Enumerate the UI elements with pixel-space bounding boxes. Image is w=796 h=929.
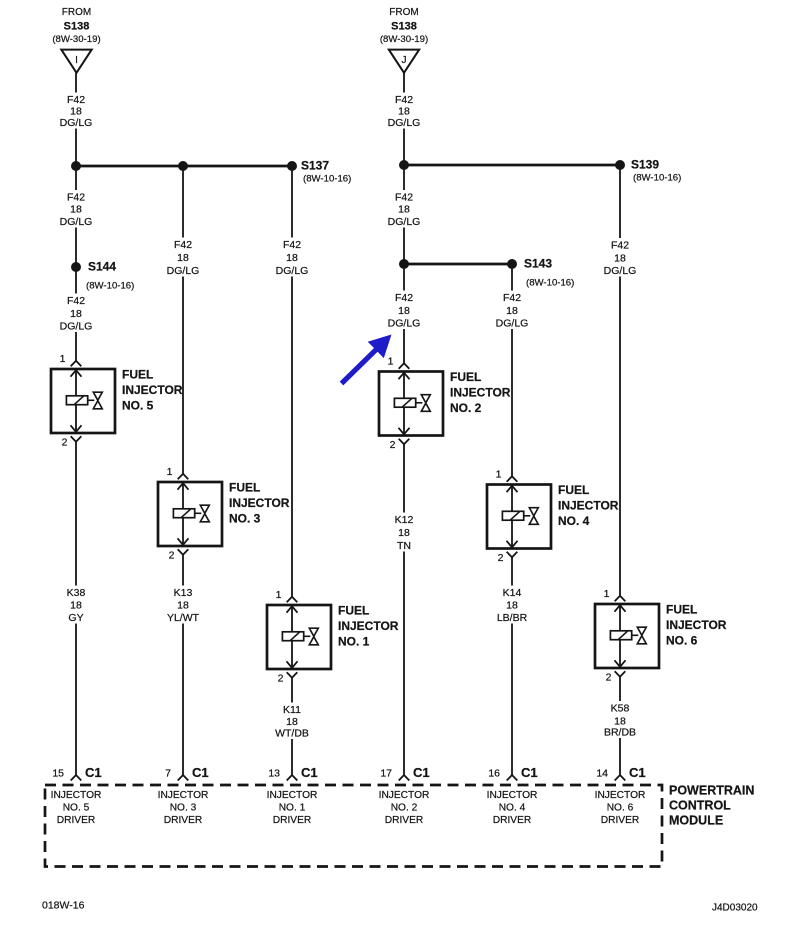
svg-text:1: 1 [276,589,282,601]
svg-text:WT/DB: WT/DB [275,727,309,739]
svg-text:18: 18 [70,599,82,611]
svg-text:2: 2 [62,437,68,449]
svg-text:2: 2 [606,672,612,684]
svg-text:FUEL: FUEL [229,481,260,495]
svg-text:C1: C1 [301,765,318,780]
svg-text:INJECTOR: INJECTOR [379,790,430,801]
svg-text:F42: F42 [174,239,192,251]
svg-text:K12: K12 [395,514,414,526]
svg-text:S138: S138 [391,21,417,33]
svg-text:2: 2 [498,552,504,564]
svg-text:18: 18 [70,203,82,215]
svg-text:F42: F42 [67,295,85,307]
svg-text:16: 16 [488,768,500,780]
svg-text:18: 18 [70,308,82,320]
svg-text:K38: K38 [67,587,86,599]
svg-text:INJECTOR: INJECTOR [487,790,538,801]
svg-text:INJECTOR: INJECTOR [158,790,209,801]
svg-text:18: 18 [398,305,410,317]
svg-text:18: 18 [70,105,82,117]
svg-text:DG/LG: DG/LG [388,216,421,228]
svg-text:1: 1 [496,469,502,481]
svg-text:F42: F42 [67,191,85,203]
svg-text:FUEL: FUEL [666,603,697,617]
svg-text:INJECTOR: INJECTOR [666,618,727,632]
svg-text:2: 2 [278,673,284,685]
svg-text:INJECTOR: INJECTOR [558,499,619,513]
svg-text:K13: K13 [174,587,193,599]
svg-text:(8W-30-19): (8W-30-19) [380,34,428,45]
svg-text:1: 1 [167,466,173,478]
svg-text:1: 1 [604,588,610,600]
svg-text:F42: F42 [395,94,413,106]
svg-text:DRIVER: DRIVER [273,815,312,826]
svg-text:7: 7 [165,768,171,780]
svg-text:18: 18 [177,599,189,611]
svg-text:NO. 5: NO. 5 [122,399,154,413]
svg-text:INJECTOR: INJECTOR [595,790,646,801]
svg-text:DRIVER: DRIVER [385,815,424,826]
svg-text:F42: F42 [283,239,301,251]
svg-text:DG/LG: DG/LG [388,117,421,129]
svg-text:1: 1 [60,353,66,365]
svg-text:17: 17 [380,768,392,780]
svg-text:1: 1 [388,356,394,368]
svg-text:15: 15 [52,768,64,780]
svg-text:DG/LG: DG/LG [276,265,309,277]
svg-text:NO. 2: NO. 2 [450,401,482,415]
svg-text:F42: F42 [395,292,413,304]
svg-text:(8W-10-16): (8W-10-16) [526,278,574,289]
svg-text:INJECTOR: INJECTOR [51,790,102,801]
svg-text:DRIVER: DRIVER [493,815,532,826]
svg-text:18: 18 [398,527,410,539]
svg-text:S143: S143 [524,257,552,271]
svg-text:LB/BR: LB/BR [497,612,528,624]
svg-text:NO. 3: NO. 3 [229,512,261,526]
svg-text:C1: C1 [192,765,209,780]
svg-text:F42: F42 [611,239,629,251]
svg-text:DRIVER: DRIVER [57,815,96,826]
svg-text:DG/LG: DG/LG [496,317,529,329]
svg-text:TN: TN [397,540,411,552]
svg-text:NO. 4: NO. 4 [558,514,590,528]
svg-text:NO. 1: NO. 1 [338,635,370,649]
svg-text:S144: S144 [88,260,116,274]
svg-text:I: I [75,55,78,66]
svg-text:F42: F42 [503,292,521,304]
svg-text:NO. 4: NO. 4 [499,803,526,814]
svg-text:K58: K58 [611,702,630,714]
svg-text:S138: S138 [64,21,90,33]
svg-text:DG/LG: DG/LG [388,317,421,329]
svg-text:FUEL: FUEL [450,370,481,384]
svg-text:C1: C1 [85,765,102,780]
svg-text:NO. 6: NO. 6 [666,634,698,648]
svg-text:INJECTOR: INJECTOR [267,790,318,801]
svg-text:INJECTOR: INJECTOR [229,496,290,510]
svg-text:DG/LG: DG/LG [60,320,93,332]
svg-text:F42: F42 [67,94,85,106]
svg-text:13: 13 [268,768,280,780]
svg-text:FUEL: FUEL [558,483,589,497]
svg-text:C1: C1 [413,765,430,780]
svg-text:18: 18 [286,252,298,264]
svg-text:C1: C1 [521,765,538,780]
svg-text:FROM: FROM [62,7,91,18]
svg-text:NO. 1: NO. 1 [279,803,306,814]
svg-text:YL/WT: YL/WT [167,612,200,624]
svg-text:J4D03020: J4D03020 [712,903,758,914]
svg-text:C1: C1 [629,765,646,780]
svg-text:DG/LG: DG/LG [60,216,93,228]
svg-text:2: 2 [390,439,396,451]
svg-text:DRIVER: DRIVER [601,815,640,826]
svg-text:018W-16: 018W-16 [42,900,85,912]
svg-text:18: 18 [286,716,298,728]
svg-text:18: 18 [506,599,518,611]
svg-text:14: 14 [596,768,608,780]
svg-text:(8W-10-16): (8W-10-16) [633,173,681,184]
svg-text:DG/LG: DG/LG [604,265,637,277]
svg-text:S139: S139 [631,158,659,172]
svg-text:INJECTOR: INJECTOR [450,386,511,400]
svg-text:INJECTOR: INJECTOR [122,383,183,397]
svg-text:DG/LG: DG/LG [60,117,93,129]
svg-text:2: 2 [169,550,175,562]
svg-text:POWERTRAIN: POWERTRAIN [669,784,754,798]
svg-text:DRIVER: DRIVER [164,815,203,826]
svg-text:INJECTOR: INJECTOR [338,619,399,633]
svg-text:18: 18 [614,252,626,264]
svg-text:18: 18 [177,252,189,264]
svg-text:(8W-10-16): (8W-10-16) [303,174,351,185]
svg-text:(8W-30-19): (8W-30-19) [52,34,100,45]
svg-text:CONTROL: CONTROL [669,799,731,813]
svg-text:FROM: FROM [389,7,418,18]
svg-text:18: 18 [506,305,518,317]
svg-text:K11: K11 [283,704,301,716]
svg-text:DG/LG: DG/LG [167,265,200,277]
svg-text:MODULE: MODULE [669,814,723,828]
svg-text:GY: GY [68,612,83,624]
svg-text:(8W-10-16): (8W-10-16) [86,281,134,292]
svg-text:FUEL: FUEL [338,604,369,618]
svg-text:FUEL: FUEL [122,368,153,382]
svg-text:S137: S137 [301,159,329,173]
svg-text:J: J [402,55,407,66]
svg-text:18: 18 [398,105,410,117]
svg-text:NO. 2: NO. 2 [391,803,418,814]
svg-text:BR/DB: BR/DB [604,726,636,738]
svg-text:K14: K14 [503,587,522,599]
svg-text:18: 18 [398,203,410,215]
svg-text:F42: F42 [395,191,413,203]
svg-text:NO. 3: NO. 3 [170,803,197,814]
svg-text:NO. 5: NO. 5 [63,803,90,814]
svg-text:NO. 6: NO. 6 [607,803,634,814]
